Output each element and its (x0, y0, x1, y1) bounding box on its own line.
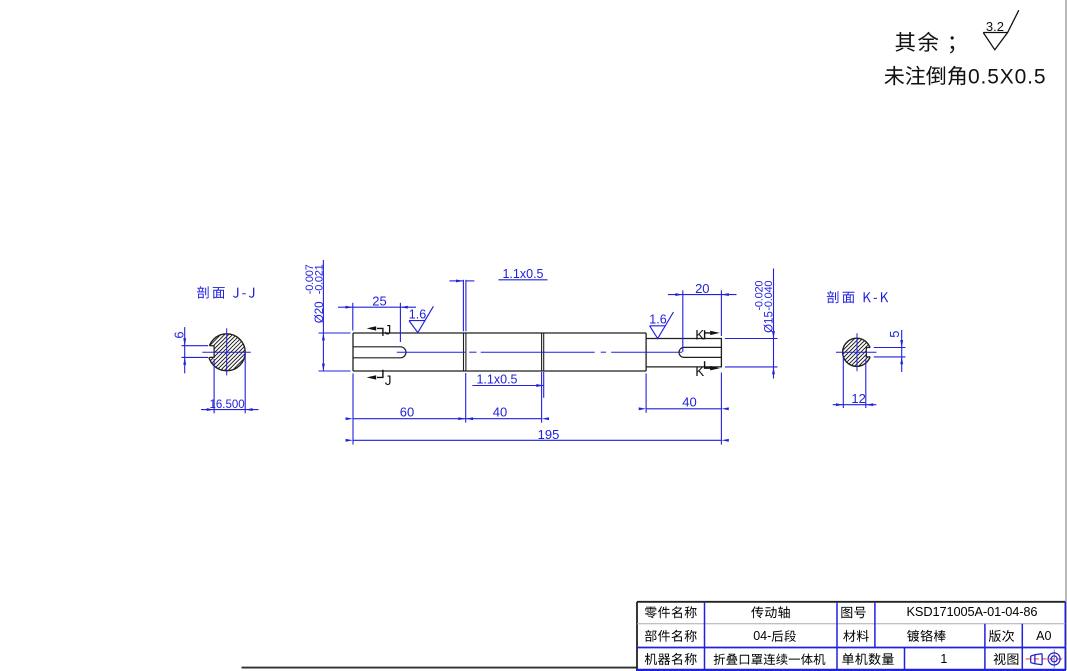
section cut mark K bottom (705, 361, 711, 368)
section J-J centerlines (202, 351, 251, 353)
svg-text:60: 60 (400, 405, 414, 420)
dimension 40 middle (466, 418, 542, 420)
dimension Ø15 -0.020/-0.040 (773, 269, 775, 379)
section J-J keyway notch (209, 346, 214, 358)
title block row separators (637, 623, 1065, 625)
svg-text:40: 40 (493, 405, 507, 420)
svg-text:04-: 04- (753, 629, 771, 643)
first-angle projection symbol (1026, 658, 1064, 660)
svg-text:K: K (695, 364, 704, 379)
section K-K title (827, 291, 889, 304)
note text 其余； (896, 32, 955, 54)
svg-text:0.5X0.5: 0.5X0.5 (968, 66, 1046, 89)
dimension 20 (682, 290, 684, 352)
svg-text:J: J (385, 323, 392, 338)
section J-J title (197, 286, 254, 299)
dimension Ø20 -0.007/-0.021 (322, 260, 324, 371)
section cut mark J top (377, 328, 383, 336)
left keyway slot (353, 347, 406, 358)
section cut mark J bottom (377, 370, 383, 378)
title block outer border (637, 601, 1065, 603)
relief groove 2 (542, 333, 544, 371)
svg-text:5: 5 (887, 330, 902, 337)
svg-text:3.2: 3.2 (986, 19, 1004, 34)
svg-text:KSD171005A-01-04-86: KSD171005A-01-04-86 (907, 604, 1038, 619)
table text row 1 (645, 606, 697, 618)
svg-text:6: 6 (171, 331, 186, 338)
frame bottom border line (242, 667, 638, 669)
right keyway slot (679, 347, 721, 357)
svg-text:40: 40 (682, 394, 696, 409)
svg-text:Ø15: Ø15 (763, 311, 775, 333)
table text row 2 (645, 630, 697, 642)
note text 未注倒角0.5X0.5 (885, 66, 966, 86)
roughness 1.6 right (650, 312, 674, 339)
shaft body outline (353, 333, 721, 371)
svg-text:1.6: 1.6 (649, 313, 666, 327)
svg-text:-0.040: -0.040 (763, 281, 775, 311)
frame right border line (1065, 0, 1067, 670)
dimension 25 (352, 303, 354, 331)
chamfer callout 1.1x0.5 bottom (541, 372, 543, 423)
section K-K centerlines (836, 351, 877, 353)
svg-text:Ø20: Ø20 (314, 301, 326, 323)
svg-text:16.500: 16.500 (210, 399, 245, 411)
dimension 195 (353, 439, 721, 441)
svg-text:J: J (385, 373, 392, 388)
surface roughness symbol 3.2 (983, 10, 1019, 50)
svg-text:12: 12 (851, 391, 865, 406)
shaft centerline (397, 351, 465, 353)
chamfer callout 1.1x0.5 top (462, 280, 464, 332)
svg-text:A0: A0 (1036, 629, 1051, 643)
section K-K keyway notch (866, 348, 870, 357)
roughness 1.6 left (409, 306, 433, 332)
dimension 16.500 (J-J) (213, 359, 215, 413)
table text row 3 (645, 653, 697, 665)
svg-text:1.1x0.5: 1.1x0.5 (476, 373, 517, 387)
svg-text:1: 1 (940, 652, 947, 666)
svg-text:1.6: 1.6 (409, 307, 426, 321)
svg-text:-0.021: -0.021 (314, 264, 326, 294)
dimension 60 (352, 374, 354, 445)
svg-text:25: 25 (372, 293, 386, 308)
svg-text:195: 195 (538, 427, 560, 442)
dimension 5 (K-K keyway width) (874, 347, 906, 349)
relief groove 1 (464, 333, 466, 371)
dimension 40 right (645, 374, 647, 413)
svg-text:K: K (695, 327, 704, 342)
dimension 12 (K-K) (842, 357, 844, 408)
svg-text:20: 20 (695, 281, 709, 296)
section cut mark K top (705, 330, 711, 339)
title block column lines (704, 602, 706, 670)
dimension 6 (J-J keyway width) (182, 345, 209, 347)
svg-text:1.1x0.5: 1.1x0.5 (502, 267, 543, 281)
